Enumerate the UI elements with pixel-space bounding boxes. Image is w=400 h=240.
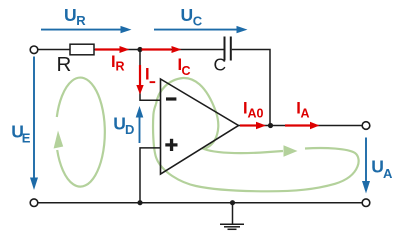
current arrow I_C (142, 46, 182, 53)
node: output junction (268, 123, 273, 128)
svg-text:R: R (76, 13, 86, 28)
terminal left bottom (30, 199, 38, 207)
wire: op-amp output to right terminal (239, 125, 363, 127)
current arrow I_R (95, 46, 130, 53)
current arrow I_A (285, 122, 320, 129)
green arrowhead left loop (54, 131, 64, 149)
svg-text:U: U (113, 114, 126, 134)
voltage arrow U_E (30, 57, 38, 191)
op-amp plus input marker (165, 143, 177, 146)
node: input junction (137, 47, 142, 52)
node: rail junction below op-amp (137, 200, 142, 205)
ground symbol bars (220, 224, 244, 229)
current arrow I_minus (136, 65, 143, 95)
svg-text:D: D (125, 122, 134, 137)
svg-text:U: U (64, 5, 77, 25)
svg-text:E: E (22, 130, 31, 145)
op-amp U1 triangle (161, 79, 239, 174)
terminal right bottom (362, 199, 370, 207)
capacitor C plates (225, 37, 231, 61)
svg-text:I: I (145, 66, 150, 84)
svg-text:A0: A0 (248, 106, 264, 120)
svg-text:R: R (57, 53, 72, 76)
svg-text:C: C (193, 14, 203, 29)
svg-text:U: U (181, 5, 194, 25)
svg-text:A: A (301, 106, 310, 120)
wire: inverting input branch (140, 50, 161, 101)
voltage arrow U_C (154, 26, 248, 33)
svg-text:A: A (383, 166, 393, 181)
svg-text:C: C (214, 54, 227, 74)
op-amp minus input marker (166, 97, 176, 100)
svg-text:C: C (182, 64, 191, 78)
terminal right top (362, 122, 370, 130)
node: rail junction at ground (230, 200, 235, 205)
ground stem (232, 203, 234, 224)
terminal left top (30, 46, 38, 54)
svg-text:R: R (116, 60, 125, 74)
resistor R body (70, 44, 94, 55)
current arrow I_A0 (240, 122, 266, 129)
voltage arrow U_D (136, 106, 144, 143)
wire: bottom ground rail (38, 202, 362, 204)
green arrowhead right loop (284, 145, 298, 157)
voltage arrow U_R (41, 26, 132, 33)
green current loop left (input mesh) (57, 78, 105, 187)
wire: cap right plate to feedback corner, down to output (232, 50, 270, 126)
green current loop right (output mesh) (153, 78, 359, 191)
wire: non-inverting input branch down to rail (140, 148, 161, 203)
wire: resistor to capacitor (through node) (94, 49, 224, 51)
voltage arrow U_A (362, 138, 370, 194)
wire: top input wire (38, 50, 362, 224)
